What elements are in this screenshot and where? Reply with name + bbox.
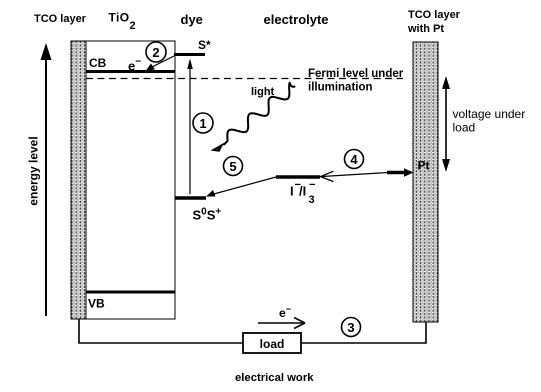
svg-text:load: load (453, 121, 476, 135)
circle step 3 (342, 318, 361, 337)
left TCO electrode (hatched bar) (71, 41, 86, 319)
Pt level line with arrowhead into electrode (387, 171, 405, 175)
Fermi level dashed line (86, 78, 403, 80)
svg-text:3: 3 (347, 320, 354, 335)
svg-text:electrical work: electrical work (235, 372, 314, 384)
svg-text:voltage under: voltage under (453, 107, 526, 121)
svg-text:with Pt: with Pt (407, 23, 444, 35)
wire left electrode down (79, 319, 243, 343)
conduction band CB level (86, 70, 175, 73)
svg-text:Pt: Pt (418, 159, 430, 173)
TiO2 box (86, 41, 175, 319)
svg-text:CB: CB (89, 56, 107, 70)
svg-text:S*: S* (198, 38, 211, 52)
arrow step 4: electron from Pt to redox couple (321, 171, 389, 181)
label I-/I3- (290, 179, 315, 206)
svg-text:load: load (260, 337, 285, 351)
load box (243, 333, 301, 353)
circle step 4 (345, 150, 364, 169)
circle step 2 (146, 42, 166, 62)
svg-text:energy level: energy level (27, 136, 41, 205)
svg-text:5: 5 (229, 159, 236, 174)
arrow step 2: electron injection from S* to CB (146, 56, 174, 71)
wire load to right electrode (301, 322, 426, 343)
wavy photon arrow (211, 83, 295, 152)
arrow step 5: regeneration from I-/I3- to S0S+ (206, 177, 276, 197)
energy level axis arrow (41, 43, 52, 316)
circle step 5 (224, 157, 243, 176)
svg-text:S0S+: S0S+ (193, 207, 222, 223)
svg-text:electrolyte: electrolyte (264, 12, 329, 27)
electron flow arrow over load (258, 318, 305, 329)
svg-text:4: 4 (350, 152, 358, 167)
voltage under load double arrow (442, 76, 450, 172)
redox couple I-/I3- level (276, 175, 320, 179)
circle step 1 (193, 113, 213, 133)
arrow step 1: excitation S0 to S* (187, 59, 193, 195)
svg-text:VB: VB (88, 297, 105, 311)
svg-text:e−: e− (279, 304, 291, 320)
right TCO electrode with Pt (hatched bar) (413, 42, 438, 322)
svg-text:1: 1 (199, 116, 206, 131)
svg-text:dye: dye (181, 12, 203, 27)
excited dye level S* (174, 53, 205, 56)
svg-text:I: I (290, 184, 294, 199)
svg-text:−: − (309, 179, 315, 191)
svg-text:illumination: illumination (308, 82, 373, 94)
svg-text:/I: /I (299, 184, 306, 199)
svg-text:Fermi level under: Fermi level under (308, 68, 404, 80)
valence band VB level (86, 291, 175, 294)
svg-text:TCO layer: TCO layer (408, 9, 461, 21)
svg-text:TCO layer: TCO layer (34, 13, 87, 25)
svg-text:2: 2 (152, 45, 159, 60)
svg-text:TiO2: TiO2 (109, 11, 137, 33)
svg-text:3: 3 (309, 194, 315, 206)
dye ground state S0/S+ level (175, 196, 206, 200)
